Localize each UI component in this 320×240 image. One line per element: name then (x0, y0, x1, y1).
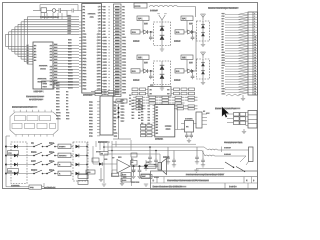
diode DC6 (201, 33, 205, 37)
switches SW-dpad (31, 142, 46, 174)
svg-text:100uF: 100uF (174, 40, 181, 43)
wire osc drops (41, 13, 62, 19)
link port ground (242, 129, 246, 134)
label box title left (141, 174, 150, 178)
wire amp out (130, 165, 158, 167)
label U1 part number (83, 94, 93, 97)
IC U5 pin names (156, 106, 159, 135)
svg-text:v: v (109, 34, 110, 36)
transistor QB2 label box (181, 55, 193, 60)
IC U1 centered label (87, 13, 96, 19)
switch jack 2 (236, 162, 249, 173)
svg-text:v: v (109, 16, 110, 18)
mouse cursor (222, 107, 229, 118)
ground amp rail (102, 184, 106, 186)
svg-text:A8: A8 (222, 46, 224, 49)
label box VIN left (131, 30, 140, 34)
svg-text:4.19MHz: 4.19MHz (185, 119, 193, 121)
label VCC tiny (206, 113, 211, 115)
IC U4 left pins (89, 101, 100, 138)
crystal X1 pins (181, 118, 197, 129)
svg-text:Left: Left (31, 160, 35, 163)
svg-text:to DMG-01: to DMG-01 (44, 187, 56, 190)
svg-text:v: v (109, 77, 110, 79)
wire CPU right vertical (113, 104, 131, 139)
dashed clamp box C (197, 21, 210, 41)
svg-text:100uF: 100uF (133, 79, 140, 82)
svg-text:Game Cartridge Socket: Game Cartridge Socket (208, 6, 237, 10)
svg-text:L-DMG01: L-DMG01 (11, 185, 21, 187)
left label cols near U5 (132, 100, 142, 120)
IC U5 left wires labels (141, 105, 155, 125)
cartridge socket pin cells (225, 15, 258, 93)
cartridge socket bottom squiggle (226, 94, 241, 96)
label 100uF right (174, 79, 181, 82)
svg-text:100uF: 100uF (133, 40, 140, 43)
svg-text:External Link Port: External Link Port (12, 105, 33, 109)
svg-text:LH5264: LH5264 (155, 138, 164, 141)
svg-text:A1: A1 (222, 28, 224, 31)
diodes D15-D18 key matrix (76, 145, 88, 175)
title sheet text (229, 183, 248, 189)
svg-text:GND: GND (222, 94, 227, 96)
svg-text:A13: A13 (222, 59, 225, 62)
wire down to title (159, 154, 161, 171)
ground amp 1 (99, 168, 103, 182)
svg-text:START: START (59, 146, 67, 149)
capacitor C31 pair (195, 147, 205, 167)
label 100uF hp (163, 156, 170, 159)
inductor L3 (208, 149, 218, 150)
svg-text:VR1 10K: VR1 10K (131, 182, 140, 184)
IC U6 right pins (202, 114, 207, 124)
wire U5 right vertical (175, 108, 185, 130)
svg-text:100uF: 100uF (163, 157, 170, 159)
capacitor CA2 (191, 32, 195, 40)
label box bottom DMG (29, 185, 42, 189)
svg-text:v: v (109, 6, 110, 8)
label bottom left text (11, 185, 21, 188)
label box VIN left (131, 69, 140, 73)
node left A (150, 31, 152, 33)
svg-text:VOL: VOL (87, 172, 92, 174)
wire DB1 to node (148, 70, 154, 72)
title url text (186, 173, 225, 177)
svg-text:v: v (109, 53, 110, 55)
bypass parts left of U5 (141, 124, 155, 137)
labels above WRAM resistors (129, 95, 131, 106)
title rev cell divider (246, 171, 248, 177)
switches SW-buttons (46, 142, 58, 174)
title cell divider b (244, 177, 252, 183)
title block frame (151, 171, 258, 189)
svg-text:QA1: QA1 (138, 17, 143, 20)
label bottom gray text (44, 187, 56, 190)
ground amp 2 (120, 173, 124, 186)
label 1.05uF hp 1 (224, 147, 231, 150)
op-amp U7 (117, 160, 130, 174)
svg-text:v: v (109, 31, 110, 33)
svg-text:32: 32 (254, 94, 256, 96)
svg-text:to LCD Unit: to LCD Unit (29, 98, 42, 101)
transistor QB1 label box (137, 55, 149, 60)
dashed diode box right (73, 142, 88, 181)
svg-text:D: D (153, 179, 155, 182)
filter block under converters (132, 84, 195, 96)
wire QB1 drop (142, 60, 144, 72)
resistor array RA1 ladder (101, 4, 127, 97)
label box under R10 (141, 175, 160, 180)
diode DA3 (160, 26, 165, 31)
svg-text:47uF: 47uF (96, 152, 101, 154)
wire audio rail 3 (104, 153, 160, 155)
svg-text:v: v (109, 71, 110, 73)
wire diode chain A (161, 22, 163, 46)
svg-text:CPU: CPU (89, 17, 94, 19)
wire DA1 to node (148, 31, 154, 33)
svg-text:S6: S6 (27, 48, 29, 50)
labels link signals (56, 82, 70, 120)
svg-text:v: v (109, 43, 110, 45)
ground jack return (194, 168, 198, 172)
svg-text:LCD DRV: LCD DRV (34, 90, 45, 93)
label box on rail (100, 152, 108, 156)
svg-text:SELECT: SELECT (59, 156, 68, 158)
wire fb (112, 170, 122, 176)
title date divider (224, 183, 226, 189)
svg-text:A5: A5 (222, 38, 224, 41)
svg-text:v: v (109, 9, 110, 11)
IC U4 right pins (114, 101, 119, 138)
IC U5 centered label (164, 125, 171, 131)
gray text bottom left block (131, 181, 140, 184)
wire DA2 to rail (191, 31, 196, 33)
svg-text:LINK: LINK (43, 84, 48, 86)
svg-text:100uF: 100uF (174, 79, 181, 82)
label amp pin (112, 157, 134, 164)
svg-text:DC IN: DC IN (135, 6, 141, 8)
svg-text:AB10: AB10 (68, 69, 74, 72)
capacitor C30 pair (166, 147, 176, 167)
diode title left (144, 160, 148, 171)
svg-text:A3: A3 (222, 33, 224, 36)
svg-text:8Kx8: 8Kx8 (166, 129, 172, 131)
label 120 ohm left (144, 23, 149, 26)
inductor L4 (205, 155, 215, 156)
wire audio rail 1 (105, 146, 204, 148)
IC U3 pin names (34, 44, 53, 86)
capacitor amp out 2 (137, 166, 141, 179)
node CPU v1 (118, 107, 120, 109)
label U5 part number (155, 138, 164, 141)
sheet border frame (3, 3, 258, 189)
svg-text:B-A: B-A (176, 31, 180, 34)
svg-text:v: v (109, 59, 110, 61)
svg-text:v: v (109, 80, 110, 82)
svg-text:Right: Right (31, 169, 37, 172)
ground clamp D (201, 79, 205, 85)
dashed clamp box D (197, 59, 210, 79)
diode DA1 (140, 30, 148, 34)
svg-text:B+B: B+B (132, 71, 137, 73)
svg-text:v: v (109, 50, 110, 52)
component box above P1 (42, 81, 80, 89)
capacitor out pair C24 (148, 147, 158, 167)
label 100uF left (133, 40, 140, 43)
label 1.05u (150, 10, 158, 13)
label boxes right of opamp (121, 173, 131, 183)
svg-text:S1: S1 (27, 60, 29, 62)
node right A (192, 31, 194, 33)
sheet background (0, 0, 261, 193)
IC U1 pin names (83, 6, 102, 91)
svg-text:S7: S7 (27, 45, 29, 47)
svg-text:1.05uF: 1.05uF (224, 154, 231, 156)
svg-text:1.05uF: 1.05uF (224, 148, 231, 150)
svg-text:(hex): (hex) (41, 69, 46, 71)
label amp misc (104, 159, 128, 179)
antenna node C (201, 14, 206, 20)
wire L1 to converter (195, 7, 197, 18)
svg-text:A6: A6 (222, 41, 224, 44)
svg-text:QB1: QB1 (138, 57, 143, 59)
svg-text:A15: A15 (222, 64, 225, 67)
wire QB2 drop (186, 60, 188, 72)
crystal caps (185, 132, 193, 138)
svg-text:D0: D0 (129, 95, 131, 97)
wire diode chain B (161, 61, 163, 85)
wire LCD data bus vertical runs (6, 17, 33, 64)
label External Link Port left (12, 105, 37, 109)
diode DC5 (201, 25, 205, 29)
svg-text:1.05uF: 1.05uF (150, 10, 158, 13)
diode amp input (93, 146, 117, 166)
svg-text:DMG-LCD: DMG-LCD (37, 79, 48, 81)
svg-text:A14: A14 (222, 62, 225, 65)
svg-text:A4: A4 (222, 36, 224, 39)
svg-text:v: v (109, 65, 110, 67)
diode DD5 (201, 63, 205, 67)
svg-text:S5: S5 (27, 50, 29, 52)
svg-text:AB14: AB14 (68, 81, 74, 84)
node out c24b (155, 150, 157, 152)
labels LCD bus signals (68, 15, 73, 35)
wire rail to amp (130, 140, 132, 151)
inductor L1 input box (134, 3, 147, 8)
nodes left rail (5, 146, 7, 175)
wire jack return (197, 167, 225, 169)
ground title left (144, 184, 148, 186)
note connects to LCD unit (26, 95, 44, 101)
label box VIN right (175, 30, 184, 34)
headphone jack J3 body (249, 147, 254, 162)
IC U3 LCD column driver box (33, 42, 53, 89)
svg-text:S2: S2 (27, 58, 29, 60)
svg-text:B+A: B+A (132, 31, 137, 34)
svg-text:v: v (109, 83, 110, 85)
svg-text:QA2: QA2 (182, 17, 187, 20)
svg-text:v: v (109, 28, 110, 30)
node CPU v2 (118, 112, 120, 114)
diode DB2 (184, 69, 192, 73)
dashed diode box left (11, 142, 27, 184)
node CPU v3 (118, 116, 120, 118)
svg-text:S3: S3 (27, 55, 29, 57)
label 100uF right (174, 40, 181, 43)
label 100uF left (133, 79, 140, 82)
svg-text:v: v (109, 62, 110, 64)
label box VIN right (175, 69, 184, 73)
wires CPU video signals (113, 106, 119, 118)
title rev text (246, 180, 255, 183)
crystal ground (187, 139, 191, 143)
wires CPU to amp verticals (96, 141, 116, 183)
wire DB2 to rail (191, 70, 196, 72)
label amp IC (118, 156, 122, 159)
wire audio rail 2 (108, 150, 202, 152)
wire audio rail 0 (112, 143, 196, 145)
svg-text:AB13: AB13 (68, 78, 74, 81)
wire hp row 2 jog (202, 151, 205, 157)
title main text (167, 178, 209, 182)
svg-text:A12: A12 (222, 56, 225, 59)
link port J2 shell (246, 111, 257, 129)
svg-text:v: v (109, 46, 110, 48)
svg-text:AB16: AB16 (68, 87, 74, 90)
diode DB3 (160, 65, 165, 70)
wire LCD data bus horizontal fan (6, 17, 79, 35)
ground clamp C (201, 41, 205, 47)
wire hp row 1 jog (204, 147, 208, 150)
label SOUT box (116, 99, 127, 103)
labels LCD lower bus (27, 45, 29, 65)
stubs into U1 left (79, 22, 82, 86)
svg-text:S0: S0 (27, 63, 29, 65)
ground B (160, 85, 164, 91)
diode DB4 (160, 74, 165, 79)
svg-text:AB11: AB11 (68, 72, 74, 75)
diode DD6 (201, 71, 205, 75)
capacitor CB1 (149, 71, 153, 79)
label boxes P13 P14 (78, 175, 88, 185)
svg-text:A2: A2 (222, 30, 224, 33)
diode DA4 (160, 35, 165, 40)
net label box P13 (8, 169, 19, 173)
svg-text:v: v (109, 37, 110, 39)
label 1.05uF hp 2 (224, 154, 231, 157)
capacitor CB2 (191, 71, 195, 79)
node out c24a (149, 146, 151, 148)
diodes D11-D14 key matrix (6, 145, 31, 175)
IC U5 WRAM box (155, 105, 175, 137)
svg-text:v: v (109, 25, 110, 27)
svg-text:VCC: VCC (206, 113, 211, 115)
wire QA2 drop (186, 21, 188, 33)
svg-text:Down: Down (31, 151, 38, 154)
resistor fb box (112, 173, 119, 176)
svg-text:External Link Port: External Link Port (215, 107, 236, 111)
resistor amp out (145, 162, 156, 169)
node left B (150, 70, 152, 72)
title block row line 1 (151, 176, 258, 178)
label TC14805C 10uF (40, 15, 60, 19)
ground A (160, 46, 164, 52)
wire bottom rail (6, 174, 44, 187)
svg-text:v: v (109, 19, 110, 21)
svg-text:v: v (109, 22, 110, 24)
label DMG-CPU (98, 141, 110, 144)
label 120 ohm right (189, 23, 194, 26)
antenna node D (201, 52, 206, 58)
label col left of speaker (131, 153, 138, 186)
svg-text:SD12: SD12 (56, 119, 62, 121)
svg-text:DMG-01: DMG-01 (87, 14, 96, 16)
node amp out 1 (133, 165, 135, 167)
node right B (192, 70, 194, 72)
connector P1 external link drawing (10, 110, 58, 137)
link port J2 pin cells (227, 113, 246, 125)
pull-up resistors above WRAM (133, 96, 198, 110)
svg-text:A7: A7 (222, 43, 224, 46)
svg-text:Headphone Jack: Headphone Jack (224, 141, 244, 144)
cartridge socket J1 box (248, 12, 258, 95)
button name boxes (58, 144, 73, 175)
IC U1 LR35902 SOC box (82, 4, 102, 94)
node amp out 2 (139, 165, 141, 167)
IC U6 amp box (196, 112, 202, 128)
svg-text:A9: A9 (222, 49, 224, 52)
svg-text:B-B: B-B (176, 71, 180, 73)
dashed module XB (154, 61, 171, 85)
cartridge socket bottom stub (241, 95, 245, 101)
power switch / regulator SW1 (33, 5, 82, 17)
diode DB1 (140, 69, 148, 73)
IC U4 DMG-CPU box (100, 96, 113, 135)
title cell divider a (157, 177, 164, 183)
label box amp left (86, 170, 95, 174)
crystal X1 box (185, 121, 194, 133)
svg-text:v: v (109, 68, 110, 70)
jack contact tick (221, 147, 223, 153)
svg-text:74LS05N: 74LS05N (38, 66, 48, 68)
svg-text:Date: October 25, 1996/JH: Date: October 25, 1996/JH (153, 186, 183, 189)
svg-text:v: v (109, 13, 110, 15)
cartridge socket pin labels and slashes (222, 12, 257, 95)
pull-up resistors above CPU (91, 91, 119, 96)
wire hp row 1 (218, 149, 249, 151)
title block row line 2 (151, 182, 258, 184)
net label box P11 (8, 151, 19, 155)
wire key matrix left rail (6, 136, 10, 174)
inductor L1 winding (149, 6, 196, 7)
transistor QA2 label box (181, 16, 193, 21)
resistor amp input box (92, 151, 101, 162)
svg-text:A11: A11 (222, 54, 225, 57)
transformer T1 fork (157, 14, 166, 22)
transistor QA1 label box (137, 16, 149, 21)
wire clamp C (202, 21, 204, 41)
wire clamp D (202, 59, 204, 79)
svg-text:S-RAM: S-RAM (164, 125, 171, 128)
svg-text:GameBoy Schematic (CPU Section: GameBoy Schematic (CPU Section) (167, 178, 209, 182)
svg-text:v: v (109, 86, 110, 88)
wire hp row 2 (215, 155, 246, 157)
svg-text:A10: A10 (222, 51, 225, 54)
label U3 part number (34, 90, 45, 93)
svg-text:AB12: AB12 (68, 75, 74, 78)
label 120 ohm right (189, 62, 194, 65)
capacitor CA1 (149, 32, 153, 40)
